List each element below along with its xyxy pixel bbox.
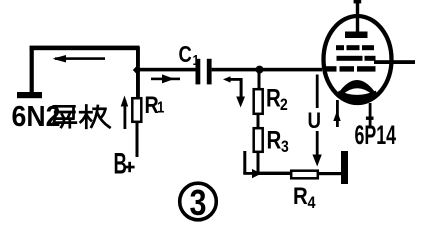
svg-text:U: U [308, 110, 322, 134]
capacitor C1 plates [196, 59, 201, 85]
U arrow (output voltage) [312, 75, 321, 167]
svg-text:6P14: 6P14 [355, 119, 397, 150]
g2 lead to right [374, 60, 415, 64]
cathode lead stub with up arrowhead [333, 100, 340, 127]
wire top horizontal [30, 46, 140, 51]
svg-text:4: 4 [308, 194, 316, 212]
wire junction to R2 [258, 71, 261, 89]
6N2 plate terminal bar [17, 92, 42, 98]
figure number 3 in circle [180, 183, 217, 223]
svg-text:R: R [266, 84, 281, 112]
character JI (pole/electrode) [80, 106, 109, 128]
plate (anode) bar [345, 32, 368, 39]
grid g1 (control grid) dashes [324, 66, 376, 71]
svg-text:R: R [267, 126, 282, 154]
cathode arc [337, 80, 376, 95]
resistor R2 [254, 89, 263, 114]
svg-text:6N2: 6N2 [12, 100, 61, 132]
svg-text:C: C [179, 42, 192, 67]
cathode terminal bar [341, 151, 348, 184]
wire R3 down and right to R4 [257, 152, 260, 173]
wire R2 to R3 [257, 115, 260, 128]
grid g3 dashes [336, 45, 374, 50]
current arrow right [151, 74, 180, 83]
bent current arrow into R2 [223, 76, 245, 107]
resistor R3 [254, 128, 263, 152]
svg-text:1: 1 [193, 52, 200, 69]
tube envelope (6P14) [324, 16, 392, 103]
svg-text:R: R [293, 182, 308, 209]
wire R1 down to B+ [136, 97, 139, 157]
svg-text:1: 1 [157, 99, 164, 116]
resistor R4 [291, 171, 318, 179]
junction node A (diamond) [133, 66, 141, 75]
junction node B (dot) [256, 66, 264, 74]
label B+ [114, 147, 135, 181]
svg-text:3: 3 [281, 138, 289, 157]
wire right vertical to junction [136, 47, 140, 97]
svg-text:B: B [114, 147, 127, 181]
wire left vertical [30, 46, 34, 93]
wire junction to C1 [139, 68, 197, 72]
plate lead [356, 0, 359, 33]
heater arc (merged with envelope bottom) [338, 94, 378, 99]
current arrow left [53, 55, 106, 63]
wire C1 to tube grid [212, 68, 323, 72]
character PING (screen/plate) [53, 106, 76, 127]
current arrow up beside R1 [121, 96, 129, 130]
wire R4 right to cathode bar [319, 172, 342, 175]
resistor R1 [132, 98, 141, 122]
bent current arrow through R4 [243, 151, 261, 178]
svg-text:2: 2 [280, 96, 288, 115]
svg-text:3: 3 [190, 184, 207, 224]
grid g2 dashes [337, 56, 376, 61]
heater lead stub with tick [366, 103, 374, 126]
